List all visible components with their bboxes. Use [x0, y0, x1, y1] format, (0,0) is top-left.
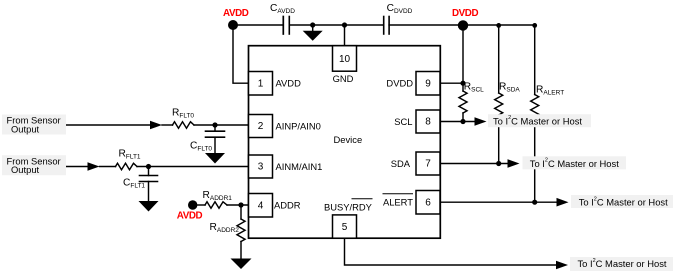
- svg-text:AVDD: AVDD: [223, 8, 249, 19]
- svg-text:Output: Output: [11, 123, 40, 134]
- svg-text:Device: Device: [334, 134, 363, 145]
- svg-text:AINP/AIN0: AINP/AIN0: [276, 120, 321, 131]
- svg-text:To I2C Master or Host: To I2C Master or Host: [493, 115, 582, 126]
- svg-text:8: 8: [425, 117, 431, 128]
- svg-text:10: 10: [339, 54, 351, 65]
- svg-text:6: 6: [425, 197, 431, 208]
- svg-text:DVDD: DVDD: [452, 8, 478, 19]
- svg-text:GND: GND: [333, 73, 354, 84]
- svg-text:SCL: SCL: [394, 116, 412, 127]
- svg-text:To I2C Master or Host: To I2C Master or Host: [530, 158, 619, 169]
- svg-text:3: 3: [258, 162, 264, 173]
- svg-text:ADDR: ADDR: [274, 200, 301, 211]
- svg-text:To I2C Master or Host: To I2C Master or Host: [579, 196, 668, 207]
- svg-text:SDA: SDA: [391, 158, 411, 169]
- svg-text:To I2C Master or Host: To I2C Master or Host: [578, 258, 667, 269]
- svg-text:ALERT: ALERT: [383, 197, 413, 208]
- svg-text:7: 7: [425, 159, 431, 170]
- svg-text:4: 4: [258, 200, 264, 211]
- svg-text:1: 1: [258, 78, 264, 89]
- svg-text:Output: Output: [11, 164, 40, 175]
- svg-text:AVDD: AVDD: [276, 78, 302, 89]
- svg-text:AVDD: AVDD: [177, 211, 203, 222]
- svg-text:5: 5: [342, 222, 348, 233]
- svg-text:AINM/AIN1: AINM/AIN1: [276, 161, 323, 172]
- svg-text:9: 9: [425, 78, 431, 89]
- svg-text:DVDD: DVDD: [386, 78, 413, 89]
- svg-text:2: 2: [258, 121, 264, 132]
- svg-text:BUSY/RDY: BUSY/RDY: [324, 202, 373, 213]
